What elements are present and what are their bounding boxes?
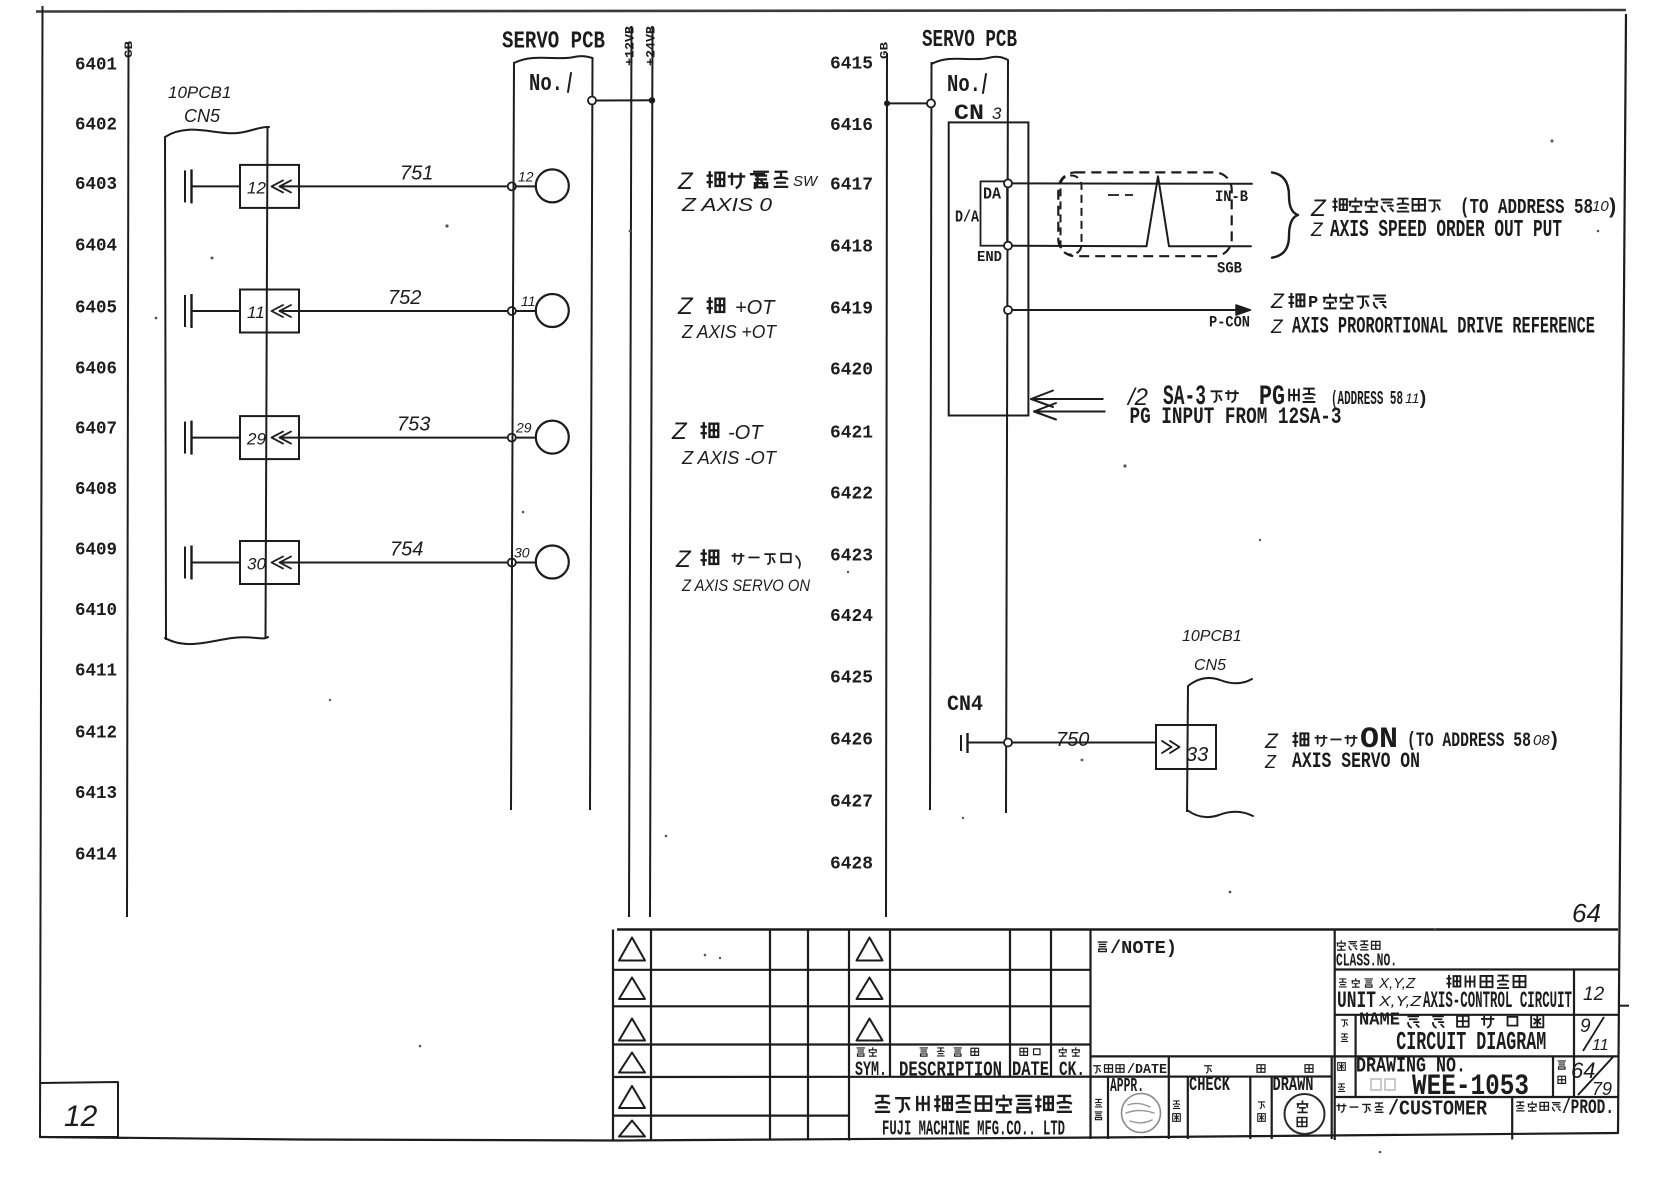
svg-text:6414: 6414 [75,845,117,866]
svg-text:753: 753 [397,414,430,436]
drawn label col [1258,1102,1266,1121]
label GB left [124,40,136,58]
handwritten sheet number 64 [1572,898,1601,928]
svg-text:(ADDRESS 58: (ADDRESS 58 [1331,388,1403,410]
svg-text:6407: 6407 [75,419,117,440]
svg-text:79: 79 [1592,1079,1612,1099]
svg-text:SERVO PCB: SERVO PCB [922,27,1017,54]
svg-text:6403: 6403 [75,174,117,195]
tick mark right border [1618,1005,1629,1007]
svg-text:Z: Z [677,168,694,195]
SERVO PCB left label No.1 [529,71,571,98]
svg-text:6416: 6416 [830,115,873,136]
unit number 12 handwritten [1583,984,1605,1005]
svg-text:Z: Z [1264,752,1277,772]
pin circle 30 on SERVO PCB [536,546,569,579]
svg-text:): ) [1548,730,1560,753]
svg-text:CIRCUIT DIAGRAM: CIRCUIT DIAGRAM [1396,1027,1546,1057]
cable inner dashes [1108,194,1133,196]
node labels 6401-6414 [75,55,117,866]
svg-text:CHECK: CHECK [1189,1074,1230,1096]
wire P-CON with arrow [1012,305,1251,315]
svg-text:SERVO PCB: SERVO PCB [502,29,605,56]
note cell label [1098,939,1177,959]
svg-text:+OT: +OT [735,297,776,319]
svg-text:Z AXIS -OT: Z AXIS -OT [681,448,778,468]
pin circle 11 on SERVO PCB [536,294,569,327]
connector 10PCB1 CN5 right label [1182,628,1242,674]
unit cell [1337,975,1572,1014]
drawing no cell [1356,1056,1529,1105]
pin P-CON circle [1004,306,1012,314]
header DATE cell [1012,1048,1049,1082]
svg-text:CLASS.NO.: CLASS.NO. [1336,952,1397,972]
wire label 753 [397,414,430,436]
pin circle 29 on SERVO PCB [536,421,569,454]
svg-text:6413: 6413 [75,783,117,804]
net +12VB rail [629,26,632,917]
svg-text:752: 752 [388,287,421,309]
date row year month day [1204,1065,1313,1073]
svg-text:FUJI MACHINE MFG.CO.. LTD: FUJI MACHINE MFG.CO.. LTD [882,1119,1065,1142]
pin box 33 on 10PCB1-CN5 [1156,725,1216,769]
net GB rail middle [886,53,887,917]
border frame left [40,6,43,1137]
svg-text:P-CON: P-CON [1209,314,1250,332]
svg-text:6423: 6423 [830,546,873,567]
svg-text:): ) [1606,197,1619,220]
svg-text:6405: 6405 [75,298,117,319]
wire 751 [299,185,512,187]
svg-text:6428: 6428 [830,854,873,875]
svg-text:/PROD.: /PROD. [1562,1097,1614,1120]
svg-text:GB: GB [880,41,892,59]
pin label 29 on SERVO PCB [515,420,532,436]
pin box 12 on 10PCB1-CN5 [240,165,299,208]
class cell [1336,940,1397,971]
border frame right [1618,14,1626,1133]
label Z axis servo on (to address 5808) [1264,723,1560,774]
svg-text:6402: 6402 [75,115,117,136]
pin label 11 on SERVO PCB [521,293,536,309]
svg-text:6427: 6427 [830,792,873,813]
arrow into pin box 30 [272,557,300,569]
arrow PG input 2 [1034,403,1106,420]
connector CN3 outline [949,122,1029,415]
label Z axis speed order out [1310,195,1619,244]
svg-text:GB: GB [124,40,136,58]
svg-text:+12VB: +12VB [623,26,638,66]
label Z axis interlock [675,546,811,595]
junction circle CN4 on servo rail [1004,739,1012,747]
sheet number box 12 [40,1082,118,1137]
SERVO PCB right label No.1 [947,72,986,99]
svg-text:10PCB1: 10PCB1 [1182,628,1242,645]
pin END circle [1004,242,1012,250]
svg-text:6422: 6422 [830,484,873,505]
header SYM cell [855,1047,887,1082]
svg-text:): ) [1417,388,1428,410]
wire 754 [299,562,512,564]
svg-text:X,Y,Z: X,Y,Z [1378,975,1416,992]
wire junction to pin circle row 11 [516,310,537,312]
svg-text:6409: 6409 [75,540,117,561]
svg-text:Z: Z [671,418,688,445]
svg-text:6417: 6417 [830,175,873,196]
customer cell [1336,1099,1487,1122]
prod cell [1516,1097,1614,1120]
svg-text:3: 3 [992,104,1002,123]
name label col [1341,1020,1348,1041]
svg-text:Z: Z [1270,317,1284,338]
page label col [1558,1061,1566,1083]
svg-text:SGB: SGB [1217,260,1242,278]
label +24VB [644,26,659,66]
svg-text:64: 64 [1572,898,1601,928]
svg-text:Z: Z [675,546,692,573]
junction dot on GB rail [884,100,890,106]
brace speed order [1272,172,1298,257]
shielded cable dashed outline [1058,172,1231,256]
svg-text:CN4: CN4 [947,692,983,717]
pin label 12 on SERVO PCB [518,168,534,184]
svg-text:750: 750 [1056,729,1089,751]
node labels 6415-6428 [830,54,873,875]
svg-text:Z: Z [1270,290,1285,313]
label P-CON [1209,314,1250,332]
junction dot on +24VB rail [649,97,655,103]
svg-text:29: 29 [246,430,266,449]
label +12VB [623,26,638,66]
wire 753 [299,437,512,439]
contact stub CN4 [961,733,968,753]
check cell [1189,1074,1230,1096]
arrow into pin box 29 [272,432,300,444]
svg-text:11: 11 [1592,1037,1609,1054]
svg-text:12: 12 [247,178,266,197]
svg-text:12: 12 [64,1100,98,1133]
appr cell [1110,1075,1144,1097]
SERVO PCB left title [502,29,605,56]
svg-text:NAME: NAME [1359,1011,1400,1031]
svg-text:29: 29 [515,420,532,436]
connector CN4 label [947,692,983,717]
svg-text:6408: 6408 [75,479,117,500]
svg-text:END: END [977,249,1002,266]
svg-text:CK.: CK. [1059,1059,1085,1082]
svg-text:Z: Z [1310,195,1327,222]
header DESCRIPTION cell [899,1048,1002,1083]
junction circle at +24VB feed [588,97,596,105]
svg-text:6426: 6426 [830,730,873,751]
svg-text:-OT: -OT [728,422,764,444]
wire 750 [968,742,1157,744]
svg-text:D/A: D/A [955,209,980,228]
SERVO PCB left outline [511,56,593,810]
date row label [1093,1062,1167,1078]
junction on SERVO rail row 12 [508,182,516,190]
svg-text:6425: 6425 [830,668,873,689]
svg-text:12: 12 [1583,984,1605,1005]
svg-text:30: 30 [247,555,266,574]
svg-text:751: 751 [400,162,433,184]
contact stub row 29 [185,421,240,455]
svg-text:CN5: CN5 [1194,657,1226,674]
contact stub row 11 [185,294,240,328]
svg-text:Z AXIS 0: Z AXIS 0 [681,195,772,215]
wire END to SGB with pulse [1012,176,1251,246]
svg-text:/NOTE): /NOTE) [1110,939,1177,959]
net +24VB rail [650,26,653,917]
label GB middle [880,41,892,59]
wire DA to IN-B [1012,182,1253,184]
svg-text:10PCB1: 10PCB1 [168,83,231,102]
svg-text:6424: 6424 [830,606,873,627]
drawn cell [1273,1074,1314,1096]
label END [977,249,1002,266]
junction on SERVO rail row 11 [508,307,516,315]
wire servo to +24VB [596,99,652,101]
check label col [1173,1101,1181,1121]
svg-text:33: 33 [1186,744,1208,766]
pin DA circle [1004,179,1012,187]
label PG input jp [1126,382,1428,413]
scan specks [155,140,1600,1154]
header CK cell [1058,1047,1085,1082]
revision triangles left column [619,938,645,1137]
wire label 750 [1056,729,1089,751]
svg-text:X,Y,Z: X,Y,Z [1378,993,1422,1010]
svg-text:DRAWN: DRAWN [1273,1074,1314,1096]
connector 10PCB1 CN5 label [168,83,231,126]
name page 9/11 handwritten [1580,1016,1609,1054]
svg-text:AXIS SERVO ON: AXIS SERVO ON [1292,749,1420,774]
svg-text:Z: Z [1310,220,1324,241]
connector CN3 label [954,101,1002,126]
page 64/79 handwritten [1571,1057,1613,1099]
label Z axis zero set SW [677,168,819,215]
svg-text:AXIS-CONTROL CIRCUIT: AXIS-CONTROL CIRCUIT [1423,988,1572,1014]
border frame bottom [40,1133,1618,1141]
svg-text:SYM.: SYM. [855,1059,887,1082]
pin box 30 on 10PCB1-CN5 [240,541,299,584]
svg-text:754: 754 [390,539,423,561]
svg-text:Z AXIS +OT: Z AXIS +OT [681,322,778,342]
svg-text:AXIS SPEED ORDER OUT PUT: AXIS SPEED ORDER OUT PUT [1330,217,1562,244]
junction on SERVO rail row 29 [508,434,516,442]
name cell [1359,1011,1546,1058]
svg-text:11: 11 [521,293,536,309]
svg-text:+24VB: +24VB [644,26,659,66]
svg-text:6421: 6421 [830,423,873,444]
wire junction to pin circle row 12 [516,185,537,187]
pin circle 12 on SERVO PCB [536,169,569,202]
label D/A [955,209,980,228]
pin box 11 on 10PCB1-CN5 [240,290,299,333]
svg-text:DATE: DATE [1012,1059,1049,1082]
svg-text:9: 9 [1580,1016,1591,1037]
svg-text:6419: 6419 [830,299,873,320]
label Z axis +OT [677,293,778,342]
wire junction to pin circle row 29 [516,437,537,439]
wire label 754 [390,539,423,561]
revision triangles middle column [857,938,883,1041]
svg-text:Z: Z [1264,730,1279,753]
SERVO PCB right outline [930,57,1008,813]
svg-text:IN-B: IN-B [1215,188,1248,206]
border frame top [36,10,1626,12]
connector 10PCB1 CN5 right rail [1187,678,1253,817]
title block grid [613,930,1618,1141]
svg-text:DESCRIPTION: DESCRIPTION [899,1060,1002,1083]
block D/A [981,181,1008,245]
junction circle servo right [927,99,935,107]
svg-text:(TO ADDRESS 58: (TO ADDRESS 58 [1407,730,1531,753]
label IN-B [1215,188,1248,206]
connector 10PCB1 CN5 outline [165,126,269,644]
svg-text:6412: 6412 [75,723,117,744]
SERVO PCB right title [922,27,1017,54]
arrow into pin box 12 [272,180,300,192]
drawn stamp [1285,1094,1325,1134]
pin label 30 on SERVO PCB [514,545,530,561]
svg-text:6406: 6406 [75,359,117,380]
svg-text:6401: 6401 [75,55,117,76]
contact stub row 12 [185,169,240,203]
svg-text:/CUSTOMER: /CUSTOMER [1388,1099,1487,1122]
svg-text:AXIS PRORORTIONAL DRIVE REFERE: AXIS PRORORTIONAL DRIVE REFERENCE [1292,314,1595,340]
wire label 752 [388,287,421,309]
svg-text:PG INPUT FROM 12SA-3: PG INPUT FROM 12SA-3 [1130,404,1342,430]
svg-text:6415: 6415 [830,54,873,75]
appr label col [1095,1099,1103,1119]
svg-text:6410: 6410 [75,600,117,621]
svg-text:30: 30 [514,545,530,561]
company name kanji [875,1095,1072,1113]
svg-text:No.: No. [947,72,981,99]
drawing label col [1338,1063,1346,1092]
net GB rail left [127,42,129,917]
label SGB [1217,260,1242,278]
svg-text:12: 12 [518,168,534,184]
wire label 751 [400,162,433,184]
svg-text:6404: 6404 [75,236,117,257]
svg-text:SW: SW [793,173,819,190]
label Z axis proportional [1270,290,1595,340]
wire junction to pin circle row 30 [516,562,537,564]
junction on SERVO rail row 30 [508,559,516,567]
pin box 29 on 10PCB1-CN5 [240,416,299,459]
svg-text:11: 11 [247,303,265,322]
svg-text:Z AXIS SERVO ON: Z AXIS SERVO ON [681,576,810,595]
svg-text:6420: 6420 [830,360,873,381]
label Z axis -OT [671,418,778,468]
svg-text:No.: No. [529,71,563,98]
wire 752 [299,310,512,312]
svg-text:DA: DA [983,186,1002,205]
appr stamp [1122,1094,1161,1133]
svg-text:P: P [1308,294,1318,313]
svg-text:Z: Z [677,293,694,320]
wire GB to servo right [887,102,931,104]
svg-text:6411: 6411 [75,661,117,682]
svg-text:CN5: CN5 [184,106,221,126]
arrow PG input 1 [1031,391,1104,408]
label PG input en [1130,404,1342,430]
arrow into pin box 11 [272,305,300,317]
contact stub row 30 [185,546,240,580]
company name latin [882,1119,1065,1142]
svg-text:6418: 6418 [830,237,873,258]
